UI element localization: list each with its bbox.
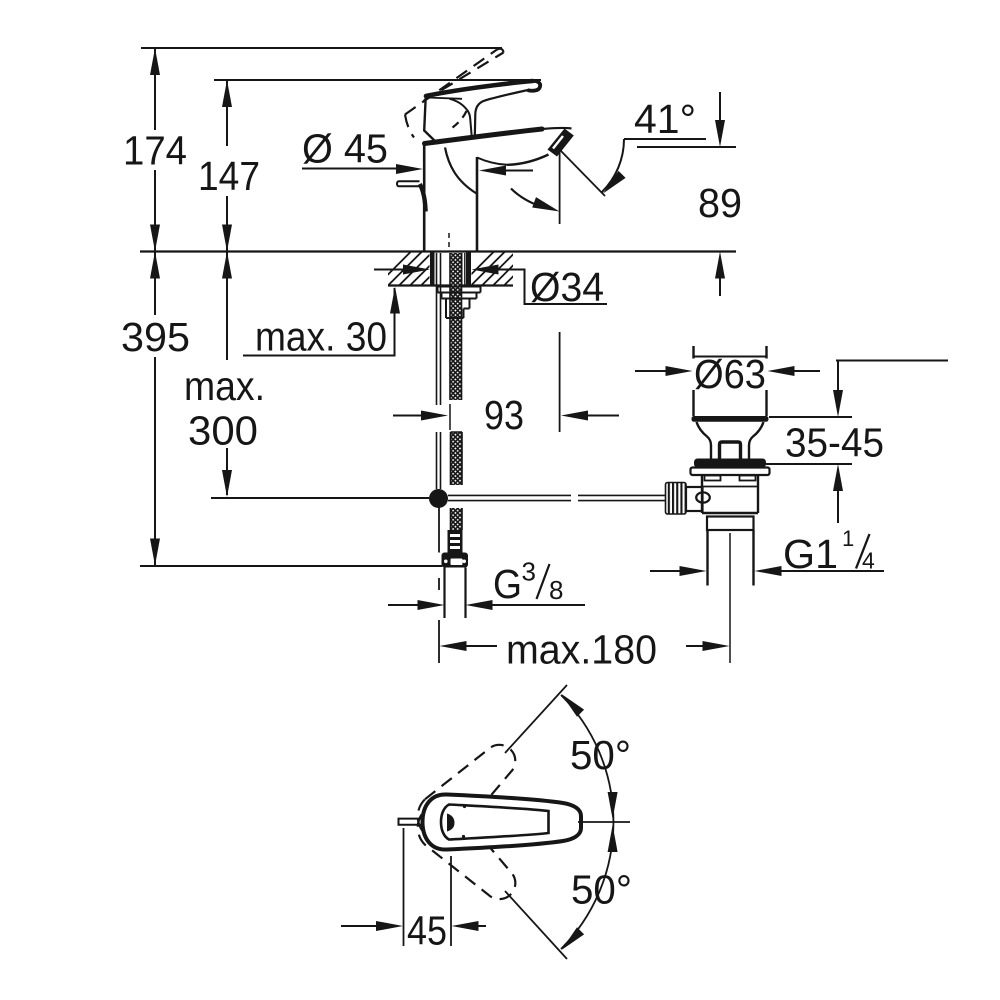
handle lever top edge [426,81,533,96]
svg-text:3: 3 [522,557,536,587]
flexible hose upper (threaded) [450,253,462,400]
svg-text:35-45: 35-45 [785,420,884,466]
handle base [424,97,438,144]
spout tip vertical reference [559,149,561,432]
dashed raised handle [405,49,504,138]
cartridge dome [450,99,472,138]
counter top surface line [140,250,736,252]
svg-text:89: 89 [698,180,742,226]
aerator [548,129,574,157]
hose end thread [448,530,463,553]
drain pull knob [397,181,420,186]
swivel arc with arrow [511,189,544,208]
drain coupling ring [707,517,754,531]
drain seal flange [694,459,766,468]
handle logo mark [447,814,455,832]
svg-text:50°: 50° [570,732,631,778]
handle outer outline [423,794,582,849]
counter hatching [377,252,538,286]
drain cylinder bottom rim [692,416,769,422]
drain top cylinder [694,346,767,416]
dashed handle rotated up [408,732,528,850]
drain flange lip [691,468,770,476]
svg-text:300: 300 [188,408,258,454]
svg-text:G: G [493,561,522,607]
shank wall right [466,253,471,287]
dimension 89 [637,146,736,148]
spout top thick edge [425,129,543,144]
body right edge [476,157,479,251]
shank wall left [430,253,435,287]
break centerline at hose gap [449,404,451,430]
shank liner lines [462,253,465,286]
dimension 174 [141,47,502,49]
svg-text:max.180: max.180 [506,627,657,673]
svg-text:8: 8 [549,575,563,605]
top view centerline [578,821,630,823]
handle lever bottom edge [426,98,462,99]
coupling lens [696,492,710,502]
svg-text:174: 174 [123,128,187,174]
pull rod mid [437,432,441,489]
svg-text:41°: 41° [634,96,696,142]
hose G3/8 nut [442,553,469,568]
svg-text:max. 30: max. 30 [255,314,387,360]
dimension diameter 34 [374,269,404,271]
svg-text:93: 93 [484,392,524,438]
dimension G 3/8 [388,604,418,606]
handle inner outline [441,805,549,840]
handle lever front underside [475,90,528,137]
max300 reference line [211,497,429,499]
horizontal drain rod [448,495,667,500]
overflow slots [705,476,721,481]
body interior swivel arc [445,148,477,194]
drain axis centerline [729,533,731,663]
upper 50 ray [505,685,567,753]
dimension 35-45 [836,360,948,362]
svg-text:50°: 50° [571,867,632,913]
svg-text:147: 147 [198,153,260,199]
svg-text:Ø 45: Ø 45 [302,126,388,172]
svg-text:1: 1 [842,526,854,551]
svg-text:395: 395 [121,314,190,360]
max180 extension line [438,578,440,663]
body left edge [423,143,426,251]
drain valve body [702,475,758,513]
svg-text:45: 45 [407,908,447,954]
dimension 147 [214,79,541,81]
svg-text:Ø63: Ø63 [694,351,766,397]
dimension 45 bottom [403,828,405,946]
ball joint [429,489,448,508]
dimension 93 [393,415,422,417]
drain funnel sides [697,422,712,459]
rod coupling housing [686,487,703,511]
spout tip top [542,128,572,129]
swing arc [561,695,613,949]
svg-text:max.: max. [184,363,265,409]
drain tail pipe [708,530,754,586]
lower 50 ray [505,891,567,959]
knurled rod coupling knob [666,483,687,515]
hose end tube [445,568,466,619]
dimension diameter 63 [635,370,666,372]
pull rod upper [437,253,441,405]
dashed handle rotated down [408,794,528,912]
flexible hose lower [451,508,463,530]
cartridge rod dashed inside body [448,233,450,251]
dimension G1 1/4 [650,570,680,572]
pull rod lower [438,508,440,553]
svg-text:4: 4 [862,548,875,574]
spout underside [507,155,549,165]
set screw stub [399,819,424,825]
drain stem block [720,442,741,459]
svg-text:G1: G1 [783,531,838,577]
flexible hose mid [451,432,463,485]
svg-text:Ø34: Ø34 [530,264,604,310]
counter bottom line [388,284,513,286]
395 reference line [140,565,442,567]
mounting nut [438,287,481,319]
handle lever tip [528,81,541,91]
spout angle ray [561,151,605,196]
